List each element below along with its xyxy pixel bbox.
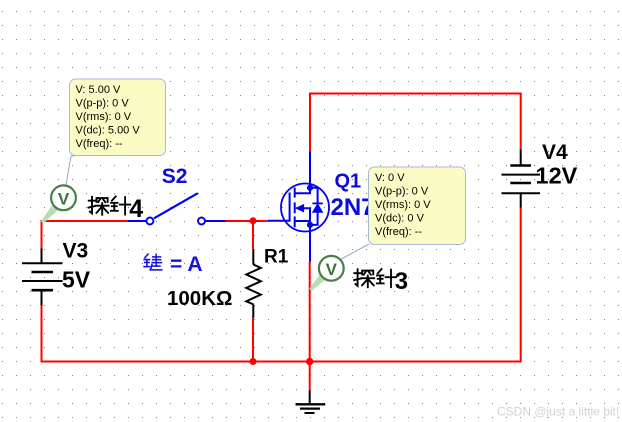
node junction at R1 top — [250, 217, 257, 224]
svg-text:V(p-p): 0 V: V(p-p): 0 V — [76, 97, 130, 109]
svg-text:V: V — [326, 260, 338, 279]
svg-text:V: 0 V: V: 0 V — [375, 172, 405, 184]
wire: top horizontal rail to V4 — [309, 93, 521, 95]
svg-text:V(freq): --: V(freq): -- — [375, 226, 422, 238]
svg-text:V(p-p): 0 V: V(p-p): 0 V — [375, 186, 429, 198]
svg-text:12V: 12V — [536, 163, 578, 189]
svg-text:4: 4 — [129, 195, 143, 223]
probe 3 handle — [309, 273, 326, 291]
svg-text:V4: V4 — [542, 141, 568, 164]
probe 3 voltage probe icon — [319, 256, 344, 281]
svg-text:100KΩ: 100KΩ — [167, 287, 232, 310]
switch S2 — [128, 193, 226, 224]
wire: R1 bottom to bottom rail — [252, 318, 254, 363]
label probe3 name — [354, 269, 396, 287]
svg-text:V: 5.00 V: V: 5.00 V — [76, 84, 122, 96]
svg-text:= A: = A — [170, 253, 202, 276]
svg-text:V(rms): 0 V: V(rms): 0 V — [375, 199, 431, 211]
svg-text:5V: 5V — [62, 267, 91, 293]
wire: right vertical from V4 bottom to bottom rail — [520, 208, 522, 363]
mosfet Q1 — [268, 151, 329, 261]
svg-text:R1: R1 — [264, 246, 289, 267]
wire: right vertical down to V4 top — [520, 93, 522, 150]
ground — [296, 391, 326, 414]
svg-text:S2: S2 — [162, 165, 188, 188]
svg-text:V3: V3 — [63, 240, 89, 263]
wire: from switch S2 pin 2 to gate junction — [226, 220, 268, 222]
probe 3 readout box — [369, 167, 466, 245]
svg-text:Q1: Q1 — [335, 170, 362, 192]
probe 3 connector line to readout — [341, 244, 370, 260]
wire: left vertical from V3 bottom to bottom rail — [41, 306, 43, 363]
wire: ground stub — [309, 362, 311, 391]
label S2 key = A — [144, 254, 162, 270]
svg-text:V(rms): 0 V: V(rms): 0 V — [76, 111, 132, 123]
svg-text:V(freq): --: V(freq): -- — [76, 138, 123, 150]
probe 4 voltage probe icon — [51, 185, 76, 210]
wire: left vertical from node A down to V3 top — [41, 220, 43, 249]
svg-text:CSDN @just a little bit!: CSDN @just a little bit! — [497, 405, 619, 419]
wire: source vertical down to bottom rail — [309, 262, 311, 362]
node junction at R1 bottom on rail — [250, 358, 257, 365]
node junction at ground on rail — [306, 358, 313, 365]
battery V3 — [22, 249, 63, 306]
wire: junction down to R1 top — [252, 221, 254, 250]
resistor R1 — [246, 250, 260, 318]
svg-text:V(dc): 0 V: V(dc): 0 V — [375, 213, 425, 225]
probe 4 connector line to readout — [66, 156, 76, 185]
battery V4 — [502, 150, 541, 208]
wire: bottom ground rail horizontal — [41, 361, 521, 363]
svg-text:V(dc): 5.00 V: V(dc): 5.00 V — [76, 124, 141, 136]
svg-text:3: 3 — [395, 268, 408, 295]
probe 4 readout box — [70, 79, 166, 156]
wire: drain vertical up to top rail corner — [309, 94, 311, 152]
wire: top-left horizontal from node A to switch S2 pin 1 — [41, 220, 129, 222]
probe 4 handle — [41, 204, 59, 224]
svg-text:V: V — [58, 190, 70, 209]
label probe4 name — [89, 196, 131, 214]
